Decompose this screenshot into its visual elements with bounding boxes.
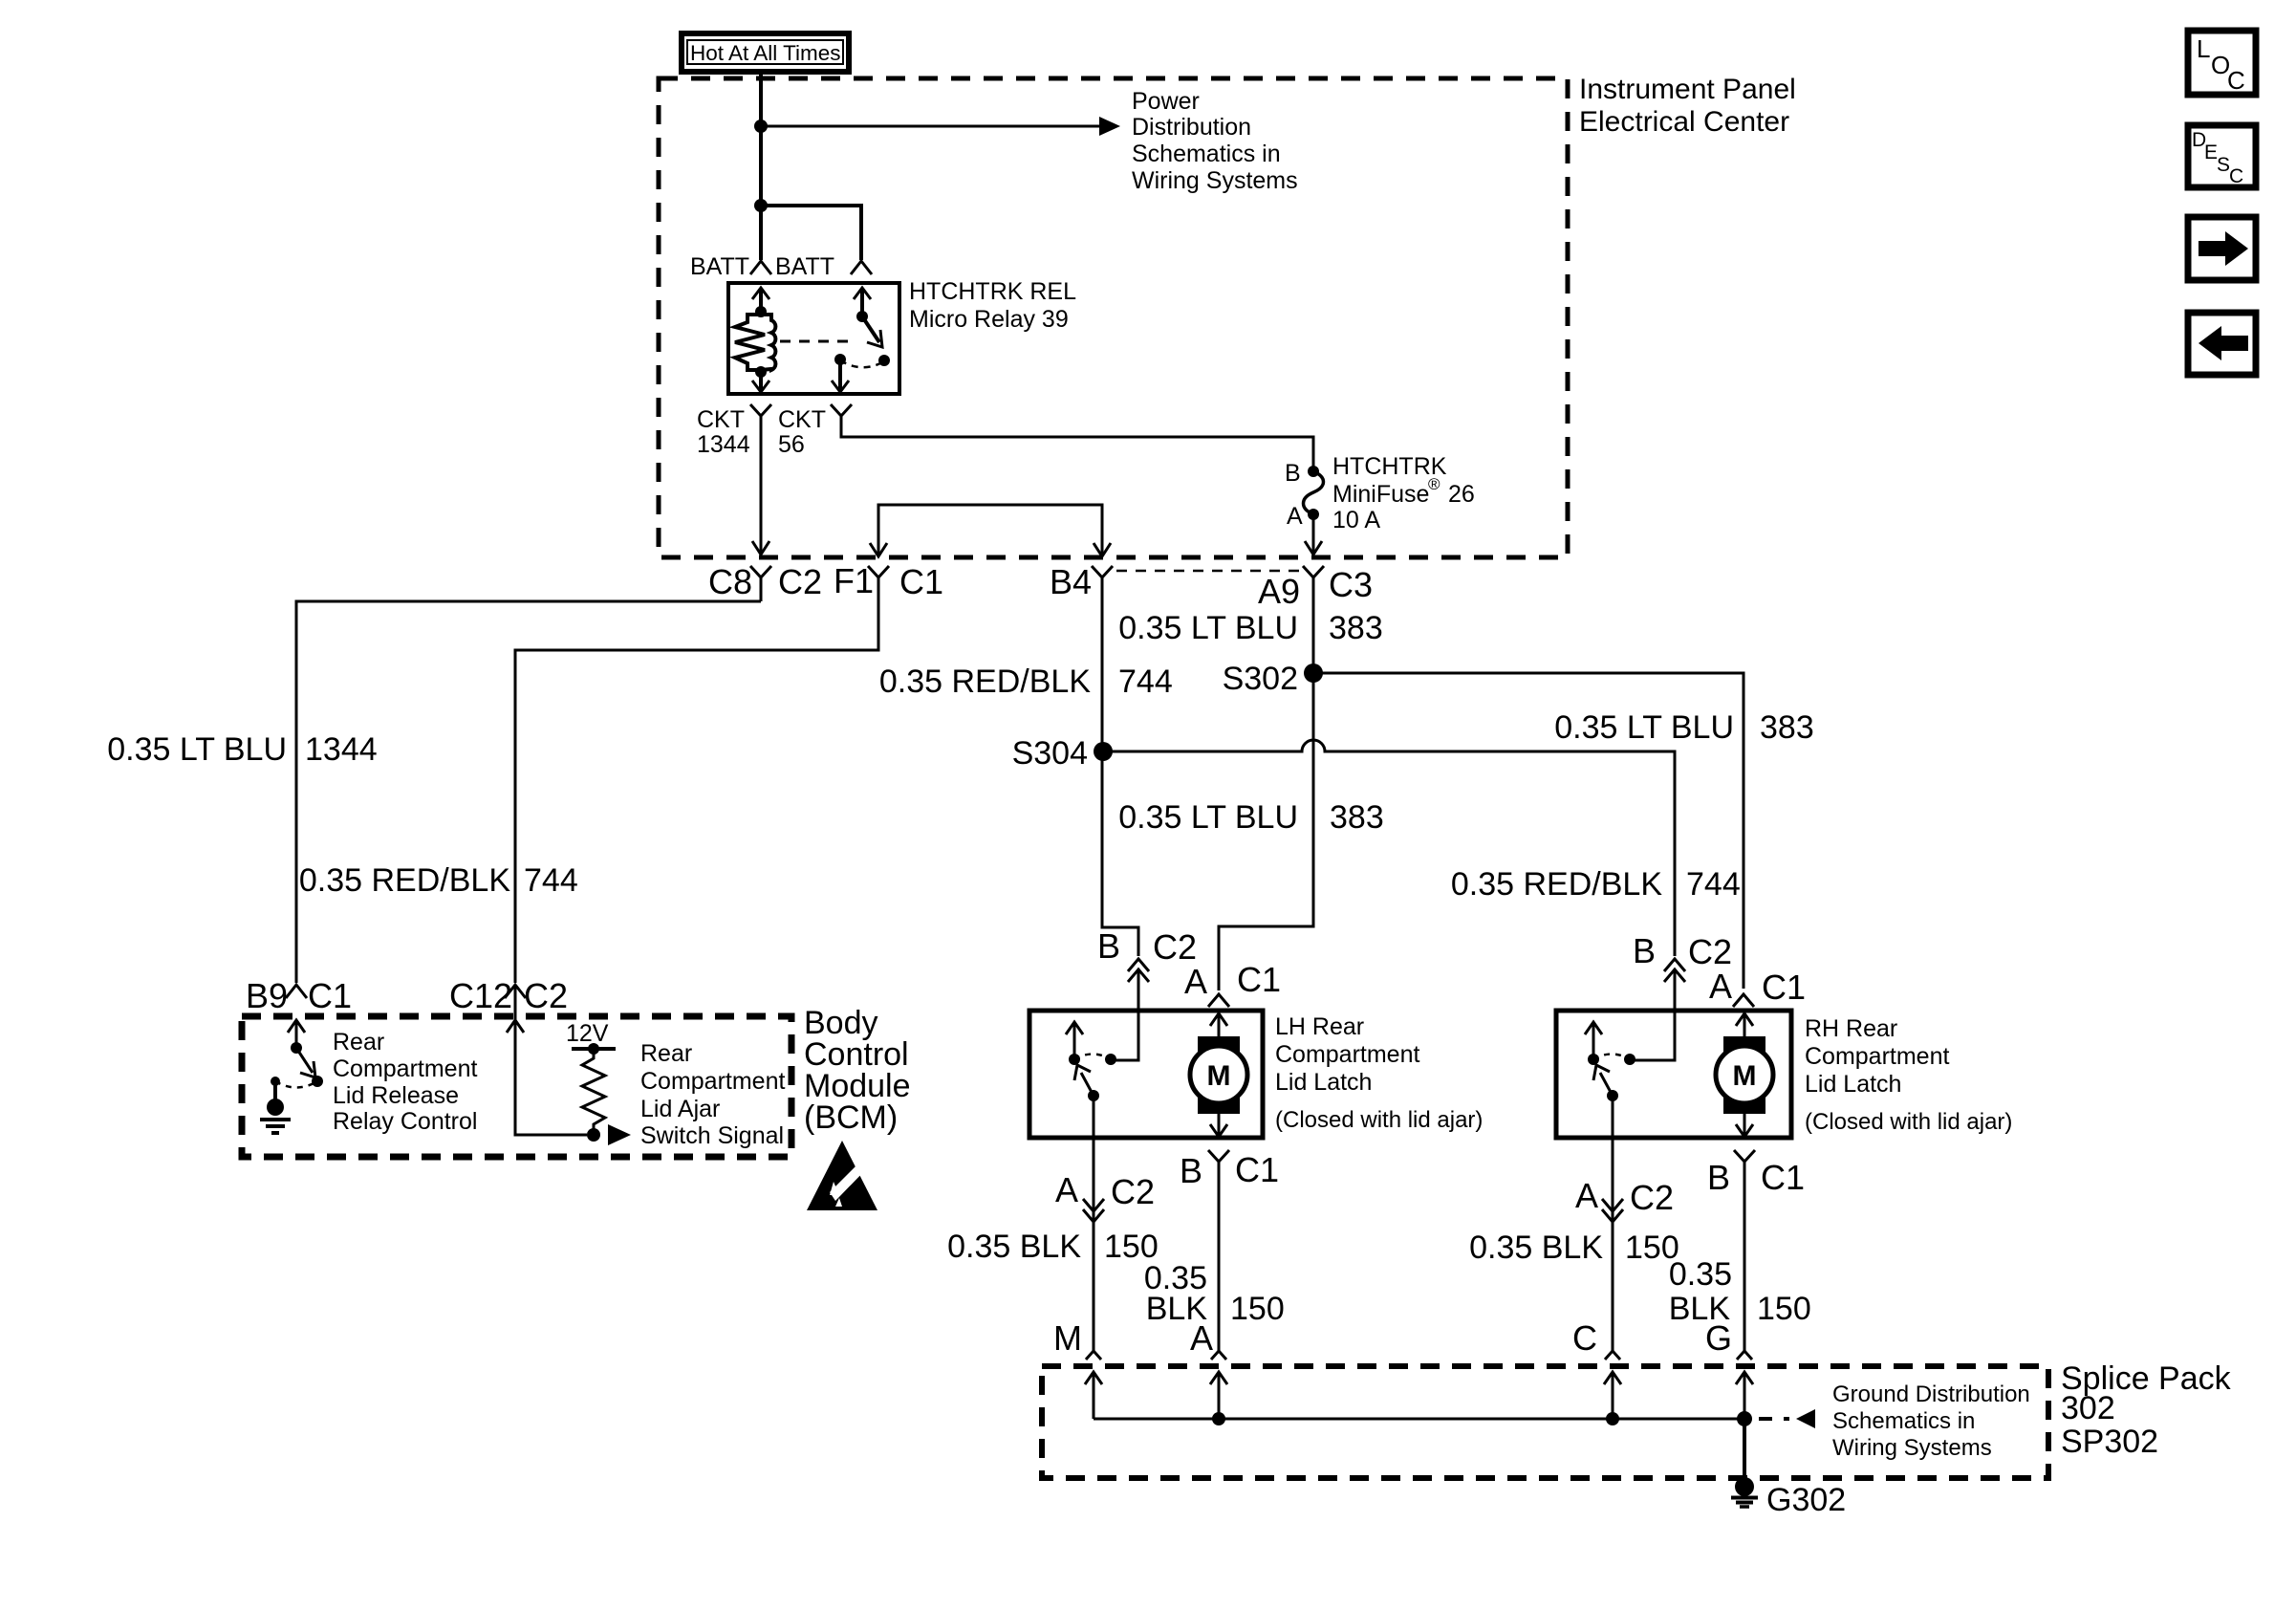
svg-text:Ground Distribution: Ground Distribution xyxy=(1832,1382,2030,1407)
connector G (chevron up) xyxy=(1737,1351,1752,1360)
label Ground Distribution Schematics in Wiring Systems xyxy=(1832,1382,2030,1461)
BCM switch travel dashed arc xyxy=(275,1081,317,1088)
connector B4 (Y) xyxy=(1092,566,1113,595)
svg-text:383: 383 xyxy=(1760,709,1814,746)
wire F1-B4 internal feed xyxy=(878,505,1102,556)
dashed leader to ground distribution note xyxy=(1759,1409,1815,1428)
label 0.35 LT BLU 383 (A9) xyxy=(1118,610,1382,646)
connector LH A/C1 (chevron up) xyxy=(1208,994,1229,1007)
label HTCHTRK MiniFuse 26 10A xyxy=(1332,453,1475,533)
connector CKT 1344 (Y) xyxy=(750,404,771,429)
svg-text:S302: S302 xyxy=(1223,661,1298,697)
svg-text:Compartment: Compartment xyxy=(1805,1043,1949,1070)
svg-text:S304: S304 xyxy=(1012,735,1088,772)
relay coil output arrow (down) xyxy=(752,372,769,392)
svg-text:0.35 BLK: 0.35 BLK xyxy=(1469,1229,1603,1266)
svg-text:Micro Relay 39: Micro Relay 39 xyxy=(909,306,1069,333)
connector LH B/C1 (Y) xyxy=(1208,1150,1229,1176)
wire branch to relay switch BATT xyxy=(761,206,861,260)
node 12V dot xyxy=(588,1043,599,1055)
svg-text:Lid Latch: Lid Latch xyxy=(1275,1069,1372,1096)
svg-text:B9: B9 xyxy=(246,976,288,1015)
splice M entry arrow xyxy=(1085,1372,1102,1419)
node switch output dot xyxy=(834,354,846,365)
wire S304 to RH latch (RED/BLK 744) with hop xyxy=(1103,740,1675,956)
RH latch switch arrow up xyxy=(1585,1022,1602,1059)
svg-text:HTCHTRK REL: HTCHTRK REL xyxy=(909,278,1076,305)
wire power distribution arrow xyxy=(761,117,1120,136)
connector CKT 56 (Y) xyxy=(831,404,852,429)
node coil top dot xyxy=(755,306,767,317)
wire LH B/C2 into latch xyxy=(1111,969,1138,1060)
wire RH B/C2 into latch xyxy=(1630,969,1675,1060)
wire C8 to B9 (LT BLU 1344) xyxy=(296,601,761,983)
LH switch travel dashed arc xyxy=(1074,1055,1111,1060)
Splice Pack dashed box xyxy=(1042,1366,2048,1478)
connector LH A/C2 (double chevron down) xyxy=(1083,1199,1104,1222)
connector M (chevron up) xyxy=(1086,1351,1101,1360)
svg-text:C1: C1 xyxy=(1235,1150,1279,1189)
svg-text:A9: A9 xyxy=(1258,572,1300,611)
svg-text:0.35 RED/BLK: 0.35 RED/BLK xyxy=(299,862,510,899)
wire fuse A down xyxy=(1312,514,1315,553)
wire RH motor to ground arrow xyxy=(1736,1114,1753,1137)
svg-text:0.35 RED/BLK: 0.35 RED/BLK xyxy=(879,664,1091,700)
connector C12/C2 (apex up) xyxy=(505,985,526,998)
svg-text:RH Rear: RH Rear xyxy=(1805,1015,1897,1042)
svg-text:C2: C2 xyxy=(524,976,568,1015)
svg-text:0.35 LT BLU: 0.35 LT BLU xyxy=(1118,610,1298,646)
node switch throw dot xyxy=(878,355,890,366)
connector RH A/C2 (double chevron down) xyxy=(1602,1199,1623,1222)
wire C12 through BCM to switch signal xyxy=(515,985,587,1135)
ESD warning triangle xyxy=(807,1141,877,1210)
svg-text:0.35 BLK: 0.35 BLK xyxy=(947,1229,1081,1265)
arrow F1 at border xyxy=(870,543,887,556)
LH latch switch arrow up xyxy=(1066,1022,1083,1059)
relay switch travel dashed arc xyxy=(840,360,884,367)
svg-text:Compartment: Compartment xyxy=(640,1068,785,1095)
svg-text:150: 150 xyxy=(1757,1291,1811,1327)
svg-text:C2: C2 xyxy=(1630,1178,1674,1217)
svg-text:383: 383 xyxy=(1329,610,1383,646)
wire splice ground bus xyxy=(1094,1418,1744,1421)
node RH switch throw dot xyxy=(1624,1054,1635,1065)
svg-text:A: A xyxy=(1287,503,1303,530)
connector C (chevron up) xyxy=(1605,1351,1620,1360)
svg-text:A: A xyxy=(1055,1170,1078,1209)
svg-text:10 A: 10 A xyxy=(1332,507,1380,533)
RH latch box xyxy=(1556,1011,1791,1138)
button LOC xyxy=(2188,31,2256,95)
node fuse terminal A dot xyxy=(1308,509,1319,520)
svg-text:M: M xyxy=(1207,1060,1231,1092)
wire LH motor feed arrow xyxy=(1210,1011,1227,1036)
svg-text:B: B xyxy=(1285,460,1301,487)
svg-text:C1: C1 xyxy=(899,562,943,601)
wire CKT 1344 down xyxy=(760,429,763,553)
relay switch blade xyxy=(862,316,882,347)
svg-text:26: 26 xyxy=(1448,481,1475,508)
svg-text:0.35 LT BLU: 0.35 LT BLU xyxy=(107,731,287,768)
svg-text:M: M xyxy=(1733,1060,1757,1092)
svg-text:L: L xyxy=(2197,34,2210,63)
svg-text:Instrument Panel: Instrument Panel xyxy=(1579,74,1796,105)
svg-text:B: B xyxy=(1097,926,1120,966)
svg-text:C2: C2 xyxy=(778,562,822,601)
LH latch box xyxy=(1029,1011,1263,1138)
connector LH B/C2 (double chevron up) xyxy=(1128,959,1149,982)
connector A9/C3 (Y) xyxy=(1303,566,1324,601)
svg-text:C12: C12 xyxy=(449,976,512,1015)
svg-text:B: B xyxy=(1633,931,1656,970)
relay coil (resistor zigzag with inductor bumps) xyxy=(735,315,775,370)
svg-text:C2: C2 xyxy=(1688,932,1732,971)
relay switch common arrow (up) xyxy=(854,288,871,315)
label Instrument Panel Electrical Center xyxy=(1579,74,1796,138)
node bus dot C xyxy=(1606,1412,1619,1425)
node junction dot 1 xyxy=(754,120,768,133)
svg-text:744: 744 xyxy=(1686,866,1741,903)
svg-text:MiniFuse: MiniFuse xyxy=(1332,481,1429,508)
svg-text:1344: 1344 xyxy=(305,731,378,768)
label RH Rear Compartment Lid Latch xyxy=(1805,1015,2012,1135)
svg-text:0.35 RED/BLK: 0.35 RED/BLK xyxy=(1451,866,1662,903)
svg-text:G302: G302 xyxy=(1766,1482,1846,1518)
svg-text:0.35: 0.35 xyxy=(1669,1256,1732,1293)
svg-text:Wiring Systems: Wiring Systems xyxy=(1832,1435,1992,1461)
splice G entry arrow xyxy=(1736,1372,1753,1419)
BCM relay-control entry arrow xyxy=(288,1020,305,1048)
connector B9/C1 (apex up) xyxy=(286,985,307,998)
BCM ground pin and ground symbol xyxy=(260,1081,291,1133)
node resistor bottom dot xyxy=(587,1128,600,1142)
svg-text:G: G xyxy=(1705,1318,1732,1358)
label Rear Compartment Lid Release Relay Control xyxy=(333,1029,477,1135)
relay coil pin arrow (up) xyxy=(752,288,769,310)
label CKT 1344 xyxy=(697,406,750,458)
svg-text:Lid Latch: Lid Latch xyxy=(1805,1071,1901,1098)
svg-text:Power: Power xyxy=(1132,88,1200,115)
Instrument Panel Electrical Center dashed box xyxy=(659,78,1568,557)
svg-text:744: 744 xyxy=(1118,664,1173,700)
node junction dot 2 xyxy=(754,199,768,212)
label 0.35 BLK 150 (LH right) xyxy=(1144,1260,1285,1327)
arrow fuse wire at IPEC border xyxy=(1305,541,1322,555)
label 0.35 LT BLU 383 (below S304) xyxy=(1118,799,1383,836)
svg-text:Lid Release: Lid Release xyxy=(333,1082,459,1109)
svg-text:B4: B4 xyxy=(1050,562,1092,601)
connector F1/C1 (Y) xyxy=(868,566,889,601)
svg-text:12V: 12V xyxy=(566,1020,609,1047)
svg-text:C1: C1 xyxy=(1237,960,1281,999)
svg-text:C: C xyxy=(2229,165,2243,187)
label 0.35 LT BLU 1344 xyxy=(107,731,377,768)
svg-text:A: A xyxy=(1190,1318,1213,1358)
wire RH switch output down xyxy=(1612,1096,1614,1351)
connector BATT right (pin 2) xyxy=(851,261,872,274)
label 0.35 BLK 150 (RH left) xyxy=(1469,1229,1679,1266)
BCM lid-ajar entry arrow xyxy=(507,1020,524,1033)
node LH switch common dot xyxy=(1088,1090,1099,1101)
ground G302 symbol xyxy=(1731,1477,1758,1507)
RH switch travel dashed arc xyxy=(1593,1055,1630,1060)
motor LH M xyxy=(1190,1036,1247,1114)
svg-text:BATT: BATT xyxy=(775,253,834,280)
node bus dot G xyxy=(1737,1411,1752,1426)
relay switch output arrow (down) xyxy=(832,359,849,392)
wire battery feed from Hot At All Times xyxy=(759,72,763,260)
svg-text:Schematics in: Schematics in xyxy=(1132,141,1281,167)
label Rear Compartment Lid Ajar Switch Signal xyxy=(640,1040,785,1149)
svg-text:C: C xyxy=(1572,1318,1597,1358)
connector C8/C2 (Y) xyxy=(750,566,771,601)
svg-text:C8: C8 xyxy=(708,562,752,601)
relay HTCHTRK REL Micro Relay 39 box xyxy=(728,283,899,394)
svg-text:150: 150 xyxy=(1230,1291,1285,1327)
motor RH M xyxy=(1716,1036,1773,1114)
node LH switch contact dot xyxy=(1069,1054,1080,1065)
label 0.35 RED/BLK 744 (B4) xyxy=(879,664,1173,700)
label 0.35 RED/BLK 744 left xyxy=(299,862,578,899)
wire LH motor to ground arrow xyxy=(1210,1114,1227,1137)
Hot At All Times box xyxy=(682,33,849,72)
label 0.35 RED/BLK 744 (right) xyxy=(1451,866,1741,903)
wire CKT 56 to fuse xyxy=(841,429,1313,468)
svg-text:0.35 LT BLU: 0.35 LT BLU xyxy=(1554,709,1734,746)
svg-text:Compartment: Compartment xyxy=(333,1055,477,1082)
BCM 12V rail xyxy=(572,1047,616,1051)
wire LH B/C1 to splice A xyxy=(1218,1162,1221,1351)
fuse HTCHTRK MiniFuse 26 element xyxy=(1304,471,1324,514)
node coil bottom dot xyxy=(755,366,767,378)
svg-text:56: 56 xyxy=(778,431,805,458)
label 0.35 LT BLU 383 (right) xyxy=(1554,709,1813,746)
svg-text:M: M xyxy=(1053,1318,1082,1358)
svg-text:Distribution: Distribution xyxy=(1132,114,1251,141)
svg-text:CKT: CKT xyxy=(697,406,745,433)
node LH switch throw dot xyxy=(1105,1054,1116,1065)
svg-text:1344: 1344 xyxy=(697,431,750,458)
label Splice Pack 302 SP302 xyxy=(2061,1360,2232,1460)
node fuse terminal B dot xyxy=(1308,466,1319,477)
node BCM ground pin top dot xyxy=(271,1077,280,1086)
svg-text:A: A xyxy=(1575,1176,1598,1215)
svg-text:Switch Signal: Switch Signal xyxy=(640,1122,784,1149)
svg-text:383: 383 xyxy=(1330,799,1384,836)
label CKT 56 xyxy=(778,406,826,458)
connector A (chevron up) xyxy=(1211,1351,1226,1360)
svg-text:Rear: Rear xyxy=(333,1029,384,1055)
node S304 xyxy=(1094,742,1113,761)
button next (right arrow) xyxy=(2188,217,2256,280)
connector RH B/C1 (Y) xyxy=(1734,1150,1755,1176)
svg-text:(BCM): (BCM) xyxy=(804,1099,898,1136)
svg-text:Compartment: Compartment xyxy=(1275,1041,1419,1068)
wire RH motor feed arrow xyxy=(1736,1011,1753,1036)
svg-text:C1: C1 xyxy=(1761,1158,1805,1197)
svg-text:Hot At All Times: Hot At All Times xyxy=(690,41,841,65)
node switch pivot dot xyxy=(856,311,868,322)
svg-text:C2: C2 xyxy=(1111,1172,1155,1211)
connector RH A/C1 (chevron up) xyxy=(1733,994,1754,1007)
wire G302 ground drop xyxy=(1743,1419,1746,1480)
arrow switch signal xyxy=(608,1124,631,1145)
dashed connector line B4 to A9 xyxy=(1116,570,1300,573)
node RH switch common dot xyxy=(1607,1090,1618,1101)
node S302 xyxy=(1304,664,1323,683)
svg-text:E: E xyxy=(2204,141,2218,163)
button back (left arrow) xyxy=(2188,313,2256,375)
svg-text:(Closed with lid ajar): (Closed with lid ajar) xyxy=(1275,1107,1483,1133)
svg-text:CKT: CKT xyxy=(778,406,826,433)
relay dashed actuation line xyxy=(780,340,856,343)
BCM dashed box xyxy=(242,1016,791,1157)
svg-text:Schematics in: Schematics in xyxy=(1832,1408,1975,1434)
svg-text:C3: C3 xyxy=(1329,565,1373,604)
svg-text:SP302: SP302 xyxy=(2061,1424,2158,1460)
svg-text:0.35 LT BLU: 0.35 LT BLU xyxy=(1118,799,1298,836)
svg-text:302: 302 xyxy=(2061,1390,2115,1426)
wire B4 down (RED/BLK 744) xyxy=(1102,595,1138,956)
wire fuse output down xyxy=(1219,601,1313,990)
wire S302 to RH latch (LT BLU 383) xyxy=(1313,673,1744,989)
node BCM switch throw dot xyxy=(312,1076,323,1087)
svg-text:B: B xyxy=(1180,1151,1202,1190)
arrow B4 at border xyxy=(1094,543,1111,556)
svg-text:Wiring Systems: Wiring Systems xyxy=(1132,167,1298,194)
splice A entry arrow xyxy=(1210,1372,1227,1419)
svg-text:Electrical Center: Electrical Center xyxy=(1579,106,1789,138)
connector BATT left (pin 1) xyxy=(750,261,771,274)
resistor BCM pull-up xyxy=(582,1049,605,1135)
label 0.35 BLK 150 (LH left) xyxy=(947,1229,1159,1265)
LH switch blade with arrowhead xyxy=(1074,1065,1094,1096)
wire RH B/C1 to splice G xyxy=(1744,1162,1746,1351)
label LH Rear Compartment Lid Latch xyxy=(1275,1013,1483,1133)
BCM switch blade with arrowhead xyxy=(296,1048,315,1077)
svg-text:C1: C1 xyxy=(1762,968,1806,1007)
svg-text:744: 744 xyxy=(524,862,578,899)
label 0.35 BLK 150 (RH right) xyxy=(1669,1256,1811,1327)
svg-text:C2: C2 xyxy=(1153,927,1197,967)
svg-text:Lid Ajar: Lid Ajar xyxy=(640,1096,720,1122)
wire LH switch output down xyxy=(1093,1096,1095,1351)
svg-text:A: A xyxy=(1709,967,1732,1006)
RH switch blade with arrowhead xyxy=(1593,1065,1613,1096)
node BCM switch fixed contact dot xyxy=(291,1042,302,1054)
svg-text:(Closed with lid ajar): (Closed with lid ajar) xyxy=(1805,1109,2012,1135)
svg-text:A: A xyxy=(1184,962,1207,1001)
svg-text:Rear: Rear xyxy=(640,1040,692,1067)
button DESC xyxy=(2188,125,2256,187)
splice C entry arrow xyxy=(1604,1372,1621,1419)
svg-text:S: S xyxy=(2217,154,2230,176)
arrow CKT1344 at IPEC border xyxy=(752,541,769,555)
svg-text:Relay Control: Relay Control xyxy=(333,1108,477,1135)
svg-text:B: B xyxy=(1707,1158,1730,1197)
node RH switch contact dot xyxy=(1588,1054,1599,1065)
connector RH B/C2 (double chevron up) xyxy=(1664,959,1685,982)
svg-text:®: ® xyxy=(1428,475,1440,493)
node bus dot A xyxy=(1212,1412,1225,1425)
svg-text:C: C xyxy=(2227,66,2245,95)
label HTCHTRK REL Micro Relay 39 xyxy=(909,278,1076,333)
svg-text:LH Rear: LH Rear xyxy=(1275,1013,1364,1040)
wire F1 to C12 (RED/BLK 744) xyxy=(515,601,878,983)
svg-text:BATT: BATT xyxy=(690,253,749,280)
label Body Control Module (BCM) xyxy=(804,1005,911,1136)
label Power Distribution Schematics in Wiring Systems xyxy=(1132,88,1298,194)
svg-text:C1: C1 xyxy=(308,976,352,1015)
